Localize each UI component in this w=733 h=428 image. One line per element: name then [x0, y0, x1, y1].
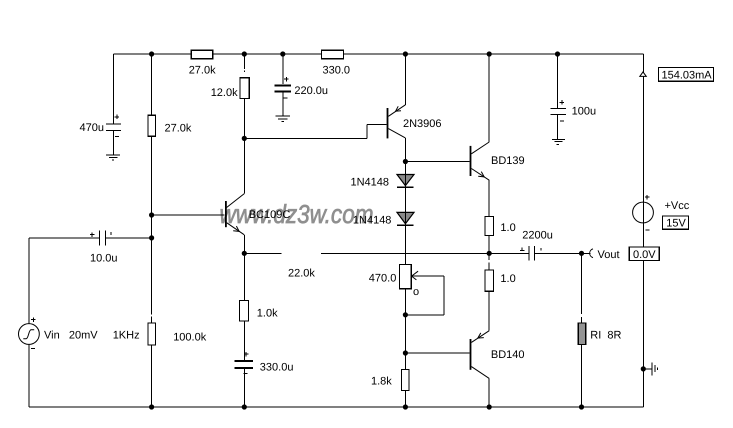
svg-text:1.0: 1.0: [500, 273, 515, 285]
capacitor 470u: [106, 115, 121, 155]
resistor R 12.0k: [240, 78, 249, 99]
ground sideways: [643, 362, 657, 375]
wire top rail: [114, 53, 644, 55]
capacitor 2200u: [520, 246, 541, 261]
node 12.0k bottom: [242, 136, 247, 141]
svg-text:100u: 100u: [572, 106, 596, 118]
junction top rail at 27k column: [149, 51, 154, 56]
svg-text:Vout: Vout: [598, 249, 620, 261]
svg-text:2N3906: 2N3906: [403, 118, 442, 130]
wire Q1 collector up: [243, 138, 245, 193]
resistor R 330.0 top: [322, 50, 344, 59]
svg-text:1.0: 1.0: [500, 222, 515, 234]
wire BD139 emitter down: [488, 180, 490, 217]
svg-text:330.0u: 330.0u: [260, 361, 294, 373]
node BD140 base tee: [403, 350, 408, 355]
probe arrow: [640, 72, 647, 77]
box 154.03mA: [659, 67, 714, 81]
svg-text:1N4148: 1N4148: [351, 177, 390, 189]
node Q2 collector: [403, 159, 408, 164]
junction top rail at 12k column: [242, 51, 247, 56]
wire pot column: [404, 289, 406, 407]
node Q1 emitter tee: [242, 251, 247, 256]
source +Vcc: [633, 195, 654, 230]
wire 12.0k column: [243, 54, 245, 138]
junction top rail at 220u column: [280, 51, 285, 56]
svg-text:27.0k: 27.0k: [165, 123, 192, 135]
wire BD139 collector up: [488, 54, 490, 142]
svg-text:2200u: 2200u: [522, 229, 553, 241]
junction bottom rail at 1.8k column: [403, 404, 408, 409]
svg-text:1N4148: 1N4148: [353, 215, 392, 227]
svg-text:1KHz: 1KHz: [113, 330, 140, 342]
capacitor 100u: [551, 54, 567, 139]
svg-text:BD140: BD140: [491, 349, 525, 361]
svg-text:+Vcc: +Vcc: [665, 200, 690, 212]
wire bottom rail: [29, 406, 643, 408]
source Vin: [19, 317, 40, 348]
resistor R 27.0k top: [191, 50, 212, 59]
resistor RI 8R: [581, 253, 583, 407]
transistor Q2 2N3906: [244, 105, 405, 139]
junction bottom rail at 100k column: [149, 404, 154, 409]
junction top rail at 100u column: [555, 51, 560, 56]
box 15V: [662, 216, 688, 229]
wire diode column: [404, 162, 406, 265]
node base tee: [149, 212, 154, 217]
node output tee: [487, 251, 492, 256]
junction top rail at 2N3906 emitter: [403, 51, 408, 56]
wire column 27.0k/100.0k: [151, 54, 153, 407]
svg-text:1.8k: 1.8k: [371, 376, 392, 388]
wire right column: [642, 54, 644, 407]
junction bottom rail at 330u column: [242, 404, 247, 409]
wire base line Q1: [152, 214, 225, 216]
transistor Q1 BC109C: [225, 194, 244, 235]
potentiometer 470.0: [399, 265, 444, 315]
transistor Q4 BD140: [405, 331, 489, 379]
svg-text:15V: 15V: [666, 217, 686, 229]
svg-text:0.0V: 0.0V: [633, 249, 656, 261]
capacitor 330.0u: [234, 352, 253, 407]
svg-text:27.0k: 27.0k: [189, 65, 216, 77]
junction bottom rail at RI column: [579, 404, 584, 409]
resistor R 27.0k left: [148, 115, 156, 136]
resistor R 1.0k: [243, 253, 245, 359]
capacitor 220.0u: [275, 54, 292, 116]
svg-text:12.0k: 12.0k: [211, 87, 238, 99]
diode D1 1N4148: [397, 175, 414, 188]
svg-text:BD139: BD139: [491, 155, 525, 167]
node wiper return: [403, 312, 408, 317]
svg-text:330.0: 330.0: [323, 65, 351, 77]
wire left input column: [28, 238, 30, 407]
svg-text:470.0: 470.0: [369, 273, 397, 285]
resistor R 100.0k: [148, 323, 156, 345]
wire BD140 collector down: [488, 378, 490, 407]
ground for 470u: [106, 155, 120, 160]
node Vout tee: [579, 251, 584, 256]
junction top rail at BD139 collector: [487, 51, 492, 56]
svg-text:RI 8R: RI 8R: [590, 330, 621, 342]
svg-text:22.0k: 22.0k: [288, 268, 315, 280]
svg-text:BC109C: BC109C: [249, 209, 291, 221]
wire input cap line: [29, 237, 152, 239]
svg-text:154.03mA: 154.03mA: [662, 69, 713, 81]
wire Q2 emitter up: [404, 54, 406, 105]
wire left drop to 470u: [113, 54, 115, 123]
svg-text:100.0k: 100.0k: [173, 332, 207, 344]
svg-text:o: o: [413, 286, 419, 298]
wire Q2 collector down: [404, 138, 406, 162]
wire output line: [244, 252, 590, 254]
ground for 100u: [552, 139, 565, 144]
ground for 220.0u: [276, 116, 290, 122]
resistor R 1.8k: [402, 369, 409, 390]
node mini ground tee: [641, 366, 646, 371]
svg-text:10.0u: 10.0u: [90, 252, 118, 264]
resistor R 1.0 upper: [485, 217, 494, 236]
svg-text:470u: 470u: [80, 122, 104, 134]
wire Q1 emitter down: [243, 235, 245, 254]
node cap tee: [149, 235, 154, 240]
svg-text:220.0u: 220.0u: [294, 85, 328, 97]
capacitor 10.0u: [90, 230, 111, 245]
svg-text:1.0k: 1.0k: [257, 308, 278, 320]
box 0.0V: [629, 247, 659, 261]
terminal Vout: [590, 249, 593, 258]
diode D2 1N4148: [397, 212, 414, 225]
resistor R 1.0 lower: [488, 253, 490, 270]
svg-text:Vin 20mV: Vin 20mV: [44, 330, 98, 342]
junction bottom rail at BD140 collector: [487, 404, 492, 409]
svg-text:www.dz3w.com: www.dz3w.com: [220, 199, 374, 229]
transistor Q3 BD139: [405, 142, 489, 180]
